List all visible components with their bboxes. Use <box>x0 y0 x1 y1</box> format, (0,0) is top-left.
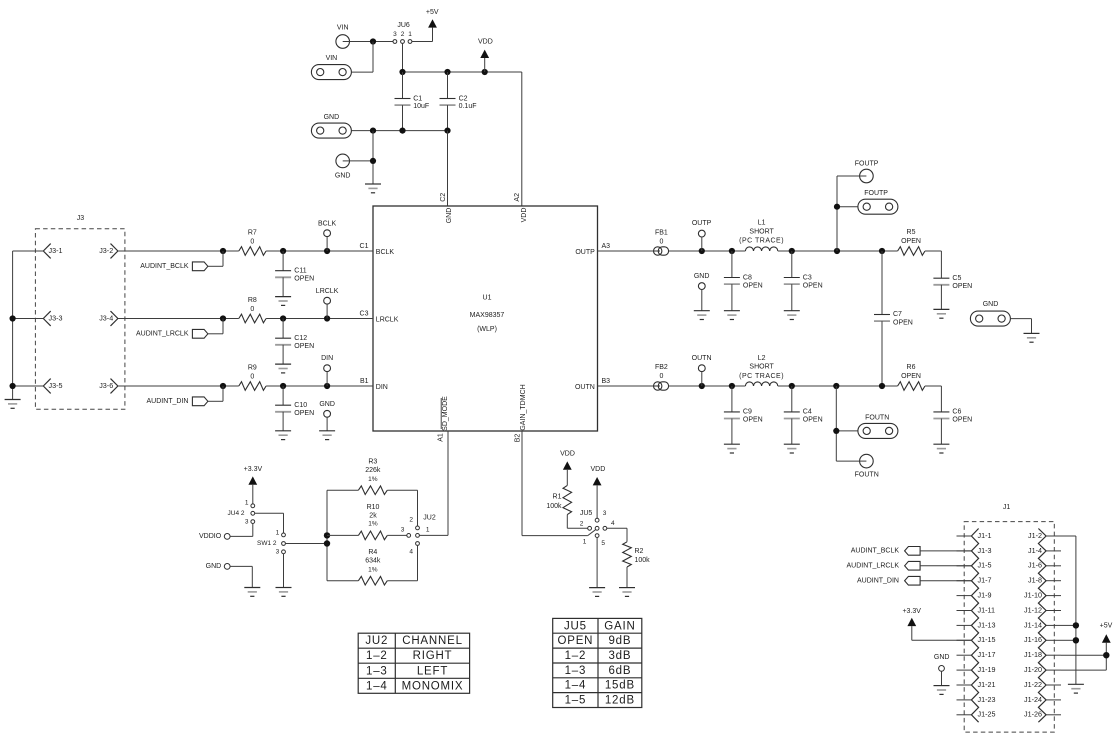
svg-text:J1-24: J1-24 <box>1024 695 1042 704</box>
jumper JU4 <box>228 500 255 526</box>
svg-text:+3.3V: +3.3V <box>244 466 263 473</box>
capacitor C4 OPEN <box>784 386 823 444</box>
jumper JU6 <box>393 22 412 44</box>
wire J1-20 to +5V stem <box>1061 669 1106 671</box>
test point GND (near J1) <box>934 654 950 685</box>
junction C4 tap <box>789 383 795 389</box>
resistor R8 0 <box>239 297 266 323</box>
svg-text:2k: 2k <box>369 512 377 519</box>
svg-text:AUDINT_DIN: AUDINT_DIN <box>857 578 899 585</box>
wire FOUTP branch <box>837 176 859 251</box>
svg-text:R7: R7 <box>248 229 257 236</box>
wire GND turret to rail <box>350 131 374 184</box>
svg-text:R4: R4 <box>368 549 377 556</box>
wire JU4 pin 2 to SW1 pin 1 <box>255 513 284 533</box>
ground (VDDIO side) <box>244 588 260 597</box>
jumper JU5 <box>580 510 615 547</box>
pad VIN (2-hole) <box>311 55 351 80</box>
ground (JU5 pin 5) <box>589 588 605 597</box>
svg-text:15dB: 15dB <box>605 680 635 692</box>
svg-text:C11: C11 <box>294 267 306 274</box>
junction bus at SW1 <box>324 540 330 546</box>
svg-text:J1-10: J1-10 <box>1024 591 1042 600</box>
svg-text:J1-17: J1-17 <box>978 650 996 659</box>
resistor R9 0 <box>239 364 266 390</box>
junction C12 tap <box>280 315 286 321</box>
junction LRCLK test point tap <box>324 315 330 321</box>
svg-text:J1: J1 <box>1003 504 1011 511</box>
svg-text:J1-21: J1-21 <box>978 680 996 689</box>
svg-text:R6: R6 <box>907 364 916 371</box>
svg-text:DIN: DIN <box>321 355 333 362</box>
svg-text:JU6: JU6 <box>397 22 410 29</box>
svg-text:634k: 634k <box>365 558 381 565</box>
svg-text:OPEN: OPEN <box>558 635 594 647</box>
wire J1-14 to bus <box>1061 624 1076 626</box>
pin labels J1 even <box>1024 531 1042 719</box>
junction FOUTN pad tap <box>833 428 839 434</box>
wire R3 to JU2 pin 2 <box>417 490 419 526</box>
connector J3 (dashed outline) <box>35 215 125 409</box>
svg-text:OPEN: OPEN <box>294 410 314 417</box>
ground (GND test point) <box>319 431 335 440</box>
svg-text:JU5: JU5 <box>580 510 593 517</box>
wire R8 to IC LRCLK <box>266 318 373 320</box>
svg-text:OUTP: OUTP <box>692 220 712 227</box>
svg-text:A2: A2 <box>514 193 521 202</box>
svg-text:J1-12: J1-12 <box>1024 605 1042 614</box>
svg-text:OUTN: OUTN <box>575 384 595 391</box>
pin J3-2 <box>99 244 118 259</box>
svg-text:1%: 1% <box>368 476 378 483</box>
wire J1-2 ground bus <box>1061 536 1076 684</box>
svg-text:1: 1 <box>408 31 412 38</box>
svg-text:1: 1 <box>276 529 280 536</box>
resistor R1 100k <box>546 485 571 528</box>
svg-text:J1-4: J1-4 <box>1028 546 1042 555</box>
svg-text:AUDINT_DIN: AUDINT_DIN <box>146 398 188 405</box>
svg-text:226k: 226k <box>365 467 381 474</box>
svg-text:J3-3: J3-3 <box>49 313 63 322</box>
svg-text:3: 3 <box>393 31 397 38</box>
tag AUDINT_BCLK (J1-3) <box>851 547 972 556</box>
capacitor C5 OPEN <box>933 275 972 310</box>
svg-text:0: 0 <box>250 238 254 245</box>
wire JU5 pin 4 to R2 <box>607 528 627 542</box>
svg-text:1–4: 1–4 <box>366 680 388 692</box>
ground (C4) <box>784 444 800 453</box>
svg-text:R9: R9 <box>248 364 257 371</box>
wire J1 right pin stubs <box>1046 536 1061 715</box>
test point LRCLK <box>316 288 339 319</box>
junction GND rail left <box>370 128 376 134</box>
svg-text:R1: R1 <box>553 493 562 500</box>
svg-text:C6: C6 <box>952 409 961 416</box>
junction AUDINT_DIN tap <box>220 383 226 389</box>
svg-text:(PC TRACE): (PC TRACE) <box>739 373 784 380</box>
pin labels J1 odd <box>978 531 996 719</box>
svg-text:AUDINT_BCLK: AUDINT_BCLK <box>851 548 900 555</box>
svg-text:J3-1: J3-1 <box>49 246 63 255</box>
svg-text:A3: A3 <box>602 243 611 250</box>
svg-text:J1-8: J1-8 <box>1028 576 1042 585</box>
svg-text:J3-5: J3-5 <box>49 381 63 390</box>
svg-text:GND: GND <box>324 114 340 121</box>
svg-text:R5: R5 <box>907 229 916 236</box>
ground (SW1) <box>276 588 292 597</box>
svg-text:FB2: FB2 <box>655 364 668 371</box>
svg-text:J1-2: J1-2 <box>1028 531 1042 540</box>
svg-text:AUDINT_LRCLK: AUDINT_LRCLK <box>136 331 189 338</box>
pad GND (right, 2-hole) <box>970 301 1010 326</box>
inductor L2 SHORT (PC TRACE) <box>739 355 784 386</box>
svg-text:3: 3 <box>276 549 280 556</box>
svg-text:GND: GND <box>319 401 335 408</box>
wire FB2 to L2 <box>669 385 746 387</box>
pin B3 OUTN label <box>575 378 610 391</box>
junction VIN node <box>370 38 376 44</box>
junction OUTN test point tap <box>699 383 705 389</box>
svg-text:VDD: VDD <box>591 466 606 473</box>
svg-text:J1-15: J1-15 <box>978 635 996 644</box>
wire J1 left pin stubs <box>957 536 972 715</box>
junction C10 tap <box>280 383 286 389</box>
ground (C8) <box>724 311 740 320</box>
svg-text:C2: C2 <box>440 193 447 202</box>
wire +3.3V to J1-15 <box>912 626 972 640</box>
pin C1 BCLK label <box>360 243 395 256</box>
svg-text:SHORT: SHORT <box>749 364 774 371</box>
svg-text:OPEN: OPEN <box>743 282 763 289</box>
junction GND rail at C1 <box>399 128 405 134</box>
ground (C9) <box>724 444 740 453</box>
wire JU6 pin 2 down to VDD rail <box>402 44 404 73</box>
pin row J1 odd pins (zigzag) <box>971 529 978 723</box>
svg-text:R3: R3 <box>368 459 377 466</box>
svg-text:GND: GND <box>206 563 222 570</box>
ground terminal GND (turret) <box>335 154 351 179</box>
svg-text:3dB: 3dB <box>608 650 631 662</box>
junction C8 tap <box>729 248 735 254</box>
svg-text:C5: C5 <box>952 275 961 282</box>
svg-text:J1-25: J1-25 <box>978 710 996 719</box>
svg-text:(PC TRACE): (PC TRACE) <box>739 238 784 245</box>
svg-text:LRCLK: LRCLK <box>376 316 399 323</box>
wire L2 to R6 <box>778 385 898 387</box>
svg-text:12dB: 12dB <box>605 695 635 707</box>
svg-text:U1: U1 <box>483 294 492 301</box>
wire VIN turret to JU6 pin 3 <box>350 41 394 43</box>
wire J3-4 to R8 <box>118 318 239 320</box>
output terminal FOUTN (turret) <box>855 454 879 478</box>
junction VDD rail at C2 <box>444 69 450 75</box>
svg-text:C1: C1 <box>360 243 369 250</box>
pin J3-1 <box>43 244 62 259</box>
wire VDD rail <box>403 72 522 206</box>
junction BCLK test point tap <box>324 248 330 254</box>
wire JU6 pin 1 to +5V <box>412 28 433 42</box>
svg-text:BCLK: BCLK <box>376 249 395 256</box>
svg-text:+5V: +5V <box>1100 623 1113 630</box>
svg-text:L1: L1 <box>758 220 766 227</box>
output terminal FOUTP (turret) <box>855 160 879 182</box>
svg-text:OPEN: OPEN <box>901 238 921 245</box>
svg-text:VDDIO: VDDIO <box>199 533 222 540</box>
wire GND rail <box>351 130 447 132</box>
ground (C5) <box>933 309 949 318</box>
resistor R6 OPEN <box>898 364 925 390</box>
svg-text:0: 0 <box>659 238 663 245</box>
svg-text:FB1: FB1 <box>655 229 668 236</box>
svg-text:R8: R8 <box>248 297 257 304</box>
junction FOUTN branch <box>833 383 839 389</box>
svg-text:J3: J3 <box>77 215 85 222</box>
ground (C12) <box>275 364 291 373</box>
wire IC OUTP to FB1 <box>598 250 654 252</box>
terminal VDDIO <box>199 533 230 540</box>
svg-text:B2: B2 <box>515 434 522 443</box>
svg-text:LRCLK: LRCLK <box>316 288 339 295</box>
pin J3-3 <box>43 311 62 326</box>
wire R6 to C6 <box>925 386 941 412</box>
svg-text:C2: C2 <box>459 95 468 102</box>
svg-text:6dB: 6dB <box>608 665 631 677</box>
svg-text:J1-3: J1-3 <box>978 546 992 555</box>
test point GND (near DIN) <box>319 401 335 431</box>
ferrite bead FB1 0 <box>654 229 669 255</box>
svg-text:1–4: 1–4 <box>565 680 587 692</box>
junction J3 bus row2 <box>10 315 16 321</box>
power symbol +5V <box>426 9 439 28</box>
resistor R2 100k <box>623 542 650 588</box>
svg-text:J1-16: J1-16 <box>1024 635 1042 644</box>
ground (J3 bus) <box>5 400 21 409</box>
resistor R3 226k 1% <box>327 459 418 495</box>
svg-text:J1-26: J1-26 <box>1024 710 1042 719</box>
svg-text:MAX98357: MAX98357 <box>470 312 505 319</box>
svg-text:OPEN: OPEN <box>803 417 823 424</box>
junction J1-18 +5V stem <box>1103 652 1109 658</box>
svg-text:J3-4: J3-4 <box>99 313 113 322</box>
svg-text:SW1 2: SW1 2 <box>257 540 277 547</box>
svg-text:VIN: VIN <box>326 55 338 62</box>
junction OUTP test point tap <box>699 248 705 254</box>
wire R7 to IC BCLK <box>266 250 373 252</box>
tag AUDINT_LRCLK <box>136 319 223 339</box>
wire GND pad to ground <box>1010 319 1031 334</box>
ground (J1 right bus) <box>1068 684 1084 693</box>
svg-text:+3.3V: +3.3V <box>902 608 921 615</box>
switch SW1 <box>257 529 285 555</box>
wire J1-18 to +5V <box>1061 654 1106 656</box>
svg-text:OPEN: OPEN <box>803 282 823 289</box>
wire IC GAIN_TDMCH to JU5 pin 1 <box>522 431 595 536</box>
svg-text:GND: GND <box>446 208 453 224</box>
pad GND (2-hole, top) <box>311 114 351 138</box>
svg-text:10uF: 10uF <box>413 103 429 110</box>
svg-text:100k: 100k <box>546 503 562 510</box>
pin B2 GAIN_TDMCH label <box>515 384 527 442</box>
junction VDD rail at VDD arrow <box>482 69 488 75</box>
junction R5/C7 branch <box>879 248 885 254</box>
svg-text:J1-20: J1-20 <box>1024 665 1042 674</box>
pin J3-6 <box>99 379 118 394</box>
svg-text:OUTP: OUTP <box>575 249 595 256</box>
ground (near J1) <box>934 686 950 695</box>
junction DIN test point tap <box>324 383 330 389</box>
pin C2 GND label <box>440 193 453 224</box>
capacitor C8 OPEN <box>724 251 763 311</box>
svg-text:0: 0 <box>250 306 254 313</box>
svg-text:2: 2 <box>401 31 405 38</box>
wire GND terminal down <box>230 566 252 587</box>
connector J1 (dashed outline) <box>964 504 1054 732</box>
svg-text:JU5: JU5 <box>564 620 587 632</box>
wire resistor bus <box>326 490 328 581</box>
svg-text:R10: R10 <box>367 504 380 511</box>
junction bus at R10 <box>324 532 330 538</box>
svg-text:4: 4 <box>409 548 413 555</box>
svg-text:1%: 1% <box>368 521 378 528</box>
tag AUDINT_BCLK <box>140 251 223 271</box>
wire FB1 to L1 <box>669 250 746 252</box>
test point BCLK <box>318 220 337 251</box>
svg-text:J1-23: J1-23 <box>978 695 996 704</box>
inductor L1 SHORT (PC TRACE) <box>739 220 784 251</box>
svg-text:J1-1: J1-1 <box>978 531 992 540</box>
table JU2 channel-select <box>358 633 469 693</box>
junction FOUTP branch <box>834 248 840 254</box>
junction C11 tap <box>280 248 286 254</box>
svg-text:J1-9: J1-9 <box>978 591 992 600</box>
svg-text:C3: C3 <box>360 310 369 317</box>
svg-text:1: 1 <box>245 500 249 507</box>
resistor R4 634k 1% <box>327 549 418 585</box>
svg-text:J3-2: J3-2 <box>99 246 113 255</box>
svg-text:OPEN: OPEN <box>743 417 763 424</box>
op-amp U1 MAX98357 (WLP) body <box>373 206 598 431</box>
svg-text:BCLK: BCLK <box>318 220 337 227</box>
junction C3 tap <box>789 248 795 254</box>
svg-text:GND: GND <box>335 172 351 179</box>
pad FOUTN (2-hole) <box>858 414 898 438</box>
power symbol +3.3V (left) <box>244 466 263 504</box>
svg-text:SHORT: SHORT <box>749 228 774 235</box>
svg-text:C10: C10 <box>294 402 307 409</box>
ground (C6) <box>933 444 949 453</box>
junction FOUTP pad tap <box>834 204 840 210</box>
wire R1 to JU5 pin 2 <box>567 527 587 529</box>
svg-text:DIN: DIN <box>376 384 388 391</box>
svg-text:GAIN_TDMCH: GAIN_TDMCH <box>520 384 527 430</box>
junction J1-14 bus <box>1073 622 1079 628</box>
junction R6/C7 branch <box>879 383 885 389</box>
junction J1-16 bus <box>1073 637 1079 643</box>
svg-text:0: 0 <box>659 373 663 380</box>
wire VDDIO to JU4 pin 3 <box>230 524 253 537</box>
ground (top section) <box>365 184 381 193</box>
capacitor C11 OPEN <box>275 251 314 297</box>
svg-text:C3: C3 <box>803 274 812 281</box>
svg-text:1: 1 <box>426 526 430 533</box>
svg-text:LEFT: LEFT <box>417 665 448 677</box>
svg-text:C12: C12 <box>294 335 307 342</box>
wire IC OUTN to FB2 <box>598 385 654 387</box>
capacitor C7 OPEN <box>874 251 913 386</box>
svg-text:CHANNEL: CHANNEL <box>402 635 463 647</box>
wire R9 to IC DIN <box>266 385 373 387</box>
svg-text:+5V: +5V <box>426 9 439 16</box>
svg-text:A1: A1 <box>438 433 445 442</box>
wire FOUTN branch <box>836 386 859 461</box>
svg-text:GND: GND <box>983 301 999 308</box>
power symbol VDD (top) <box>478 38 493 72</box>
wire J3-2 to R7 <box>118 250 239 252</box>
capacitor C2 0.1uF <box>440 72 477 131</box>
svg-text:JU2: JU2 <box>365 635 388 647</box>
wire JU5 pin 5 to ground <box>596 538 598 588</box>
svg-text:5: 5 <box>601 540 605 547</box>
svg-text:1: 1 <box>583 538 587 545</box>
capacitor C1 10uF <box>395 72 430 131</box>
pin A3 OUTP label <box>575 243 610 256</box>
junction GND rail at C2 <box>444 128 450 134</box>
wire J1-16 to bus <box>1061 639 1076 641</box>
svg-text:1–5: 1–5 <box>565 695 587 707</box>
svg-text:VDD: VDD <box>560 450 575 457</box>
svg-text:C9: C9 <box>743 409 752 416</box>
wire SW1 pin 3 to ground <box>283 554 285 588</box>
tag AUDINT_DIN <box>146 386 223 406</box>
svg-text:OUTN: OUTN <box>692 355 712 362</box>
test point OUTN <box>692 355 712 386</box>
test point GND (below OUTP) <box>694 273 710 311</box>
capacitor C6 OPEN <box>933 409 972 444</box>
svg-text:C1: C1 <box>413 95 422 102</box>
svg-text:OPEN: OPEN <box>294 343 314 350</box>
svg-text:OPEN: OPEN <box>952 417 972 424</box>
wire SW1 pin 2 to resistor bus <box>286 543 327 545</box>
svg-text:GND: GND <box>694 273 710 280</box>
svg-text:JU4 2: JU4 2 <box>228 510 245 517</box>
junction GND turret node <box>370 158 376 164</box>
svg-text:FOUTP: FOUTP <box>864 190 888 197</box>
svg-text:JU2: JU2 <box>423 515 436 522</box>
svg-text:VIN: VIN <box>337 24 349 31</box>
pin J3-4 <box>99 311 118 326</box>
svg-text:J1-19: J1-19 <box>978 665 996 674</box>
capacitor C9 OPEN <box>724 386 763 444</box>
test point DIN <box>321 355 333 386</box>
pin C3 LRCLK label <box>360 310 399 323</box>
svg-text:(WLP): (WLP) <box>477 326 497 333</box>
svg-text:1–2: 1–2 <box>565 650 587 662</box>
svg-text:3: 3 <box>603 510 607 517</box>
svg-text:0.1uF: 0.1uF <box>459 103 477 110</box>
junction AUDINT_BCLK tap <box>220 248 226 254</box>
power symbol VDD (R1) <box>560 450 575 485</box>
svg-text:1%: 1% <box>368 567 378 574</box>
svg-text:J3-6: J3-6 <box>99 381 113 390</box>
tag AUDINT_DIN (J1-7) <box>857 576 971 585</box>
svg-text:J1-11: J1-11 <box>978 605 995 614</box>
svg-text:FOUTN: FOUTN <box>865 414 889 421</box>
svg-text:OPEN: OPEN <box>893 319 913 326</box>
svg-text:J1-13: J1-13 <box>978 620 996 629</box>
resistor R5 OPEN <box>898 229 925 255</box>
svg-text:L2: L2 <box>758 355 766 362</box>
ground (C11) <box>275 297 291 306</box>
